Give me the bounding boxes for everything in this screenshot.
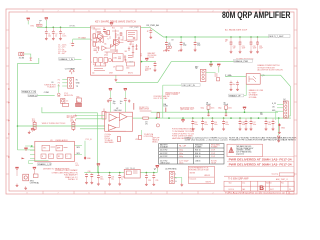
svg-text:TI-S 80M QRP AMP: TI-S 80M QRP AMP [228, 178, 249, 181]
svg-text:C8: C8 [121, 40, 123, 42]
svg-text:CW PEDAL: CW PEDAL [30, 182, 39, 185]
jumper JP1 [69, 69, 74, 74]
svg-text:ENABLE_J_OP: ENABLE_J_OP [38, 163, 52, 166]
power flag SW [15, 167, 18, 170]
red note text block [172, 128, 196, 140]
svg-text:MAX DRIVE: MAX DRIVE [139, 108, 150, 111]
svg-text:F017: F017 [270, 189, 274, 191]
junction [53, 27, 55, 29]
svg-text:B: B [259, 185, 264, 192]
svg-text:4k7: 4k7 [98, 42, 101, 44]
wire [74, 58, 81, 60]
flag above rail end [156, 165, 159, 168]
ground [24, 186, 27, 189]
svg-text:24: 24 [289, 189, 291, 191]
svg-text:OSC_FILT_IN: OSC_FILT_IN [182, 85, 195, 87]
resistor R2 [93, 34, 96, 38]
net label ENABLE_T_IN [59, 58, 74, 61]
pin numbers left edge [91, 28, 92, 65]
svg-text:C10: C10 [197, 43, 200, 45]
svg-text:9T: 9T [140, 56, 142, 58]
node flag [30, 58, 33, 61]
svg-text:J4 (PHONES): J4 (PHONES) [165, 168, 177, 170]
svg-text:5: 5 [119, 11, 120, 13]
internal blocks [41, 145, 71, 158]
caps right of VR [145, 173, 151, 186]
svg-text:R06 10: R06 10 [195, 153, 201, 155]
transistor Q3 [102, 46, 107, 51]
transistor Q7 [246, 74, 260, 85]
svg-text:C12: C12 [194, 122, 197, 124]
wires to J3 [62, 80, 67, 86]
transistor bowtie pair [97, 37, 104, 43]
svg-text:C17: C17 [253, 122, 256, 124]
frame zone ticks [6, 9, 297, 194]
svg-text:C32: C32 [111, 177, 114, 179]
svg-text:ASK_TEST_#1: ASK_TEST_#1 [276, 178, 288, 181]
connector J2 KEY [195, 66, 206, 81]
svg-text:FOR NFM LOW CUT IF 80M: FOR NFM LOW CUT IF 80M [189, 169, 209, 171]
svg-text:1nF: 1nF [233, 48, 236, 50]
svg-text:10n: 10n [233, 84, 236, 86]
wire TP into box [73, 38, 91, 40]
svg-text:3: 3 [181, 11, 182, 13]
crystal X1 [19, 52, 24, 56]
svg-text:2 1W: 2 1W [211, 156, 215, 158]
connector J3 [68, 77, 74, 88]
ground [45, 37, 48, 40]
svg-text:8: 8 [26, 193, 27, 195]
svg-text:P1: P1 [76, 163, 78, 165]
svg-text:1.0W Use heatsink + check bias: 1.0W Use heatsink + check bias current [184, 139, 228, 142]
svg-text:D4: D4 [121, 28, 123, 30]
capacitor C26 [236, 81, 239, 92]
svg-text:C20: C20 [233, 46, 236, 48]
svg-text:FT37-43: FT37-43 [148, 57, 154, 59]
svg-text:Doc: Doc [242, 182, 245, 184]
svg-text:40 2/2 R2: 40 2/2 R2 [160, 153, 167, 155]
mid components [110, 30, 135, 71]
capacitor C28 [272, 118, 276, 130]
svg-text:Q4: Q4 [96, 52, 98, 54]
svg-text:100n: 100n [211, 108, 215, 110]
resistor R8 bridging [157, 113, 160, 118]
svg-text:9T: 9T [225, 41, 227, 43]
svg-text:C34: C34 [148, 180, 151, 182]
switch SW1 [23, 174, 29, 181]
svg-text:1u: 1u [121, 178, 123, 180]
svg-text:ENABLE_T_IN: ENABLE_T_IN [22, 91, 36, 94]
svg-text:560p: 560p [179, 150, 183, 152]
svg-text:5: 5 [119, 193, 120, 195]
TP labels [58, 79, 60, 87]
ground [28, 131, 31, 134]
resistor R6 [133, 103, 135, 110]
wire diagonal [116, 62, 234, 83]
resistor R10 [139, 135, 142, 139]
svg-text:R06 10: R06 10 [195, 156, 201, 158]
svg-text:100n: 100n [214, 124, 218, 126]
black text 5 lines [236, 145, 253, 156]
red text block above choke [140, 52, 157, 59]
frame arrow marks left [8, 88, 10, 158]
svg-text:4: 4 [150, 193, 151, 195]
svg-text:100n: 100n [225, 124, 229, 126]
wire with diode D1 [58, 84, 60, 93]
op-amp U1 box [91, 26, 141, 75]
warning triangle [229, 147, 234, 153]
resistor R2b [93, 42, 96, 46]
svg-text:10n: 10n [48, 36, 51, 38]
svg-text:2 1W: 2 1W [211, 153, 215, 155]
wire vertical left bus [17, 63, 19, 149]
transformer icon [167, 46, 172, 49]
power flag VCC1 [27, 18, 30, 21]
caps left pair [85, 173, 88, 184]
svg-text:KILL R TO LOAD: KILL R TO LOAD [154, 97, 168, 100]
svg-text:100n: 100n [126, 68, 130, 70]
svg-text:100n: 100n [253, 124, 257, 126]
red note 4 lines right-aligned [52, 169, 79, 181]
mic cluster MK1 [61, 98, 82, 106]
svg-text:C13: C13 [204, 122, 207, 124]
svg-text:100n: 100n [204, 124, 208, 126]
svg-text:QRP LEVEL OUT: QRP LEVEL OUT [180, 109, 193, 111]
svg-text:TO INCREASE TX POWER: TO INCREASE TX POWER [172, 130, 195, 133]
diode D1 [57, 93, 60, 96]
net label ENABLE_OF [229, 94, 244, 97]
black text above table [184, 137, 228, 142]
net label DRIVE [28, 94, 37, 97]
svg-text:4: 4 [150, 11, 151, 13]
flag top [31, 129, 34, 132]
small comp [33, 174, 38, 178]
capacitor C3 [59, 27, 66, 37]
junction [17, 125, 19, 127]
svg-text:2: 2 [212, 193, 213, 195]
flag near out [145, 58, 148, 61]
svg-text:6: 6 [88, 11, 89, 13]
red arrow mark [22, 158, 25, 160]
gate C [108, 125, 116, 131]
resistor R3 [107, 30, 110, 34]
svg-text:/4mm: /4mm [179, 162, 184, 164]
capacitor C10 [107, 98, 112, 113]
net label ENABLE_T [22, 90, 36, 93]
svg-text:Number: Number [266, 182, 272, 184]
wire [72, 39, 74, 42]
wire [18, 125, 105, 127]
svg-text:LM1: LM1 [114, 58, 118, 60]
capacitor C19 [149, 27, 152, 38]
svg-text:TX AUDIO: TX AUDIO [47, 86, 56, 89]
svg-text:T1: T1 [107, 39, 109, 41]
frame zone glyphs [26, 11, 244, 195]
svg-text:INSTALL 12: INSTALL 12 [68, 178, 78, 181]
diode D2 [278, 118, 280, 135]
gate A [109, 114, 117, 122]
svg-text:7: 7 [57, 11, 58, 13]
svg-text:560p: 560p [179, 153, 183, 155]
svg-text:10nF: 10nF [253, 48, 257, 50]
red text cluster mid-left [105, 134, 115, 144]
svg-text:LPF: LPF [135, 139, 138, 141]
svg-text:ENABLE_OF: ENABLE_OF [229, 95, 241, 98]
capacitor C4 polarized [70, 42, 75, 46]
svg-text:POWER: POWER [195, 147, 202, 149]
svg-text:10u: 10u [111, 178, 114, 180]
caps left of Q7 [230, 81, 236, 92]
power flag SW2 [33, 167, 36, 170]
svg-text:C9: C9 [113, 67, 115, 69]
svg-text:C9: C9 [183, 43, 185, 45]
svg-text:100u: 100u [100, 178, 104, 180]
svg-text:40 2/2 R2: 40 2/2 R2 [160, 156, 167, 158]
wire [37, 95, 54, 97]
capacitor C27 [245, 118, 249, 130]
capacitor row under MULTI rail [230, 37, 263, 53]
svg-text:OUT_PWR: OUT_PWR [130, 27, 140, 29]
svg-text:ENABLE_PWR: ENABLE_PWR [234, 60, 248, 63]
svg-text:120p: 120p [197, 45, 201, 47]
svg-text:POWDER TYPE CORES FOR THE QRP: POWDER TYPE CORES FOR THE QRP PA OUTPUT … [229, 139, 297, 142]
svg-text:MULTI_T_SHP: MULTI_T_SHP [269, 36, 284, 38]
svg-text:120p: 120p [183, 45, 187, 47]
svg-text:R11: R11 [93, 28, 96, 30]
power flag [97, 164, 100, 167]
svg-text:1n: 1n [116, 51, 118, 53]
flag on upper rail [243, 107, 246, 110]
wire [174, 177, 182, 183]
red text under flag [145, 67, 152, 73]
svg-text:KEY SHAPE DRIVE WAVE SWITCH: KEY SHAPE DRIVE WAVE SWITCH [95, 20, 136, 23]
svg-text:8: 8 [26, 11, 27, 13]
capacitor C11 [124, 98, 131, 113]
wire [24, 54, 31, 58]
ground [181, 183, 184, 186]
pin wires [276, 104, 284, 111]
flags above J2 [209, 64, 212, 67]
ground at box bottom [115, 75, 117, 78]
svg-text:100R: 100R [163, 106, 168, 108]
caps on rail [97, 173, 104, 186]
svg-text:2 1W: 2 1W [211, 150, 215, 152]
svg-text:DOC#4: DOC#4 [229, 189, 234, 191]
junction [46, 27, 48, 29]
power flag VDD [45, 18, 48, 21]
svg-text:WSEL: WSEL [69, 26, 76, 28]
svg-text:C14: C14 [214, 122, 217, 124]
svg-text:C15: C15 [225, 122, 228, 124]
svg-text:C8: C8 [168, 43, 170, 45]
capacitor C24 [154, 62, 157, 72]
capacitor row left under rail [163, 36, 173, 52]
value text adjusted [180, 106, 194, 111]
ground [52, 37, 55, 40]
svg-text:PWR DELIVERED AT 50MH 1A3- F0: PWR DELIVERED AT 50MH 1A3- F017-24 [229, 164, 293, 167]
svg-text:22p: 22p [129, 44, 132, 46]
svg-text:1k: 1k [93, 42, 95, 44]
svg-text:40 2/2 R2: 40 2/2 R2 [160, 150, 167, 152]
wire audio to divider [42, 107, 98, 172]
resistor RA [165, 108, 167, 113]
red caption left of table [152, 138, 160, 144]
svg-text:C31: C31 [100, 177, 103, 179]
connector J5 DC IN [283, 99, 287, 103]
resistor R7 inline [143, 117, 149, 119]
svg-text:3: 3 [181, 193, 182, 195]
small box icons [63, 103, 69, 106]
svg-text:C5: C5 [66, 101, 68, 103]
svg-text:VOLTAGE: VOLTAGE [160, 146, 169, 149]
svg-text:C8: C8 [171, 40, 173, 42]
resistor R9 [118, 136, 121, 141]
svg-text:E_OF: E_OF [272, 103, 276, 105]
pins left [18, 146, 35, 159]
svg-text:SEE TABLE: SEE TABLE [105, 141, 115, 144]
svg-text:6: 6 [88, 193, 89, 195]
capacitor bank [191, 118, 271, 130]
svg-text:PA - CAP: PA - CAP [179, 145, 187, 148]
svg-text:22p: 22p [113, 103, 116, 105]
svg-text:C7: C7 [103, 28, 105, 30]
wire main bus [148, 117, 291, 119]
svg-text:WIND 9 TURNS ON FT37-43: WIND 9 TURNS ON FT37-43 [42, 123, 65, 125]
svg-text:Q5: Q5 [104, 55, 106, 57]
svg-text:C6: C6 [51, 82, 53, 84]
svg-text:1/1: 1/1 [288, 193, 290, 195]
border frame outer [6, 9, 297, 194]
inductor towers on upper rail [201, 103, 215, 117]
junctions [230, 36, 232, 38]
svg-text:Size: Size [229, 182, 232, 184]
wire from J2 [206, 62, 219, 73]
svg-text:X1 4M: X1 4M [19, 58, 25, 60]
wire RF input rail [37, 26, 91, 28]
junctions on bus [156, 117, 158, 119]
junction [60, 27, 62, 29]
svg-text:V: V [154, 167, 156, 171]
wire from U1 out [141, 27, 269, 37]
svg-text:C30: C30 [88, 171, 91, 173]
svg-text:100n: 100n [228, 108, 232, 110]
svg-text:1n: 1n [55, 36, 57, 38]
cap value texts [113, 101, 123, 105]
svg-text:GND: GND [281, 127, 286, 129]
pin marks [75, 115, 77, 121]
svg-text:L: L [175, 174, 176, 176]
svg-text:C2: C2 [117, 35, 119, 37]
svg-text:L3NO4: L3NO4 [195, 161, 200, 163]
red note 4 lines [249, 89, 264, 99]
gate B [120, 113, 128, 121]
svg-text:LICENSED - TESTED: LICENSED - TESTED [236, 150, 252, 152]
table cells text [160, 144, 221, 165]
ground [16, 184, 19, 187]
wire power rail [84, 172, 157, 174]
small comps [215, 74, 220, 81]
component column left of U2 [102, 109, 106, 120]
svg-text:P1.1_B: P1.1_B [86, 139, 93, 141]
svg-text:C21: C21 [242, 46, 245, 48]
red power rows [227, 157, 294, 167]
svg-text:POWER: POWER [211, 147, 218, 149]
svg-text:C23: C23 [259, 46, 262, 48]
power flag [110, 23, 113, 26]
svg-text:R3: R3 [96, 47, 98, 49]
svg-text:7: 7 [57, 193, 58, 195]
svg-text:R1 - 4k7: R1 - 4k7 [58, 53, 65, 55]
svg-text:1: 1 [39, 23, 40, 25]
svg-text:560p: 560p [201, 108, 205, 110]
svg-text:+: + [275, 122, 276, 124]
svg-text:10n: 10n [92, 73, 95, 75]
svg-text:M.B.FIX: M.B.FIX [206, 181, 211, 183]
svg-text:RT: RT [104, 64, 106, 66]
wire Q7 out to DC [260, 75, 290, 116]
inductor L1 flag [181, 120, 184, 123]
svg-text:R14: R14 [93, 64, 96, 66]
capacitor C7a [103, 29, 106, 33]
value list text [58, 45, 66, 55]
svg-text:76 mH: 76 mH [211, 162, 217, 164]
capacitor C1 [45, 27, 51, 37]
svg-text:100n: 100n [194, 124, 198, 126]
red text above [154, 95, 170, 100]
svg-text:12V: 12V [272, 106, 275, 108]
svg-text:9 AND 3 TURNS: 9 AND 3 TURNS [165, 93, 178, 96]
power flag right [156, 165, 159, 168]
VCC text [76, 101, 80, 105]
pin net labels [272, 103, 276, 112]
border frame inner [9, 12, 294, 191]
wire U2 out with resistor [133, 117, 143, 119]
power flags above U2 [109, 88, 112, 91]
wire Q7 down [244, 84, 246, 95]
svg-text:ALL RADIALS ARE 100nF: ALL RADIALS ARE 100nF [225, 29, 248, 32]
table grid [159, 144, 224, 165]
sub-circuit box right [127, 31, 138, 41]
svg-text:Q8: Q8 [111, 60, 113, 62]
svg-text:2: 2 [212, 11, 213, 13]
svg-text:C33: C33 [121, 177, 124, 179]
svg-text:74HCU04: 74HCU04 [114, 110, 122, 112]
dimension line [108, 130, 126, 132]
svg-text:R06 10: R06 10 [195, 150, 201, 152]
components right column [128, 44, 138, 58]
wire from OSC label [163, 84, 182, 86]
svg-text:COM1: COM1 [44, 92, 49, 94]
svg-text:10k: 10k [104, 44, 107, 46]
svg-text:10nF: 10nF [259, 48, 263, 50]
capacitor C2 [52, 27, 58, 37]
svg-text:2k2: 2k2 [125, 51, 128, 53]
svg-text:RF_PWR_BA: RF_PWR_BA [147, 24, 160, 27]
svg-text:P2: P2 [58, 79, 60, 81]
svg-text:L3NO4 wind: L3NO4 wind [160, 162, 169, 164]
svg-text:C18: C18 [268, 122, 271, 124]
red text pair [144, 133, 154, 138]
extra internal details [94, 32, 135, 63]
wire U1 mid out [141, 61, 157, 63]
rule [224, 175, 294, 177]
svg-text:80M QRP AMPLIFIER: 80M QRP AMPLIFIER [222, 10, 291, 20]
capacitor TP2 [32, 119, 36, 131]
svg-text:MICA C: MICA C [152, 141, 159, 144]
svg-text:AUDIO IN: AUDIO IN [64, 94, 73, 97]
flag [24, 148, 27, 151]
wire internal mesh [93, 29, 124, 48]
